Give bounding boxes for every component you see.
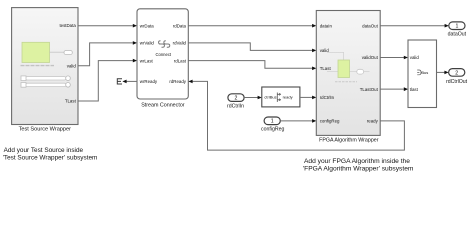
- svg-text:configReg: configReg: [320, 119, 340, 124]
- svg-text:2: 2: [235, 96, 238, 102]
- wire TLastOut to bus creator: [380, 87, 408, 91]
- svg-text:'FPGA Algorithm Wrapper' subsy: 'FPGA Algorithm Wrapper' subsystem: [303, 166, 414, 173]
- wire testData to wrData: [78, 24, 137, 28]
- FPGA thumbnail small oval: [357, 69, 364, 74]
- svg-text:valid: valid: [410, 55, 420, 60]
- terminator T1: [117, 79, 122, 84]
- thumbnail tiny caption text row: [21, 65, 55, 67]
- svg-text:TLast: TLast: [320, 66, 332, 71]
- FPGA thumbnail wires: [327, 52, 370, 71]
- svg-text:valid: valid: [320, 48, 330, 53]
- wire rdData to dataIn: [188, 24, 316, 28]
- wire valid to wrValid: [78, 41, 137, 66]
- Connect icon: [155, 41, 171, 57]
- thumbnail slider 2: [21, 83, 70, 88]
- svg-text:dataIn: dataIn: [320, 23, 333, 28]
- svg-text:'Test Source Wrapper' subsyste: 'Test Source Wrapper' subsystem: [3, 155, 98, 162]
- subsystem Test Source Wrapper: [12, 8, 78, 125]
- subsystem FPGA Algorithm Wrapper: [316, 11, 380, 136]
- wire rdCtrlIn to ctrlBus selector: [244, 96, 262, 100]
- bus creator: [408, 40, 437, 108]
- thumbnail green block inside Test Source Wrapper: [22, 42, 72, 62]
- svg-text:1: 1: [271, 119, 274, 125]
- svg-text:rdCtrlIn: rdCtrlIn: [227, 103, 244, 109]
- svg-text:rdData: rdData: [173, 23, 187, 28]
- svg-text:testData: testData: [59, 23, 76, 28]
- svg-text:Add your FPGA Algorithm inside: Add your FPGA Algorithm inside the: [304, 158, 410, 165]
- block Stream Connector: [137, 9, 188, 99]
- annotation left: [3, 147, 98, 162]
- svg-text:1: 1: [455, 24, 458, 30]
- inport 2 rdCtrlIn: [227, 94, 244, 110]
- svg-text:Add your Test Source inside: Add your Test Source inside: [4, 147, 84, 154]
- svg-text:validOut: validOut: [362, 55, 379, 60]
- svg-text:rdReady: rdReady: [169, 79, 186, 84]
- wire configReg to FPGA: [280, 119, 316, 123]
- outport 2 rdCtrlOut: [446, 69, 468, 85]
- thumbnail slider 1: [21, 76, 70, 81]
- svg-text:wrReady: wrReady: [140, 79, 158, 84]
- annotation right: [303, 158, 414, 173]
- svg-text:ready: ready: [283, 95, 293, 100]
- svg-text:TLastOut: TLastOut: [360, 87, 379, 92]
- wire validOut to bus creator: [380, 56, 408, 60]
- svg-text:Bus: Bus: [421, 70, 428, 75]
- wire wrReady to terminator: [122, 80, 137, 84]
- svg-text:ready: ready: [367, 119, 379, 124]
- svg-text:wrValid: wrValid: [140, 41, 155, 46]
- wire TLast to wrLast: [78, 59, 137, 101]
- wire dataOut to outport: [380, 24, 449, 28]
- wire ctrlBus selector to rdCtrlIn port: [300, 96, 316, 100]
- svg-text:rdCtrlOut: rdCtrlOut: [446, 79, 468, 85]
- FPGA thumbnail green block: [338, 60, 350, 78]
- svg-text:dataOut: dataOut: [362, 23, 378, 28]
- svg-text:rdLast: rdLast: [174, 58, 187, 63]
- bus selector ctrlBus/ready: [262, 87, 300, 107]
- svg-text:wrData: wrData: [140, 23, 154, 28]
- svg-text:ctrlBus: ctrlBus: [264, 95, 276, 100]
- inport 1 configReg: [261, 117, 284, 132]
- svg-text:Test Source Wrapper: Test Source Wrapper: [19, 127, 72, 133]
- wire rdLast to TLast: [188, 61, 316, 71]
- svg-text:FPGA Algorithm Wrapper: FPGA Algorithm Wrapper: [319, 138, 379, 144]
- wire ready feedback to rdReady: [188, 80, 404, 151]
- svg-text:TLast: TLast: [65, 99, 77, 104]
- svg-text:Stream Connector: Stream Connector: [141, 103, 185, 109]
- svg-text:dataOut: dataOut: [448, 32, 467, 38]
- svg-text:valid: valid: [67, 63, 77, 68]
- outport 1 dataOut: [448, 22, 467, 38]
- svg-text:rdValid: rdValid: [173, 41, 187, 46]
- svg-text:configReg: configReg: [261, 126, 284, 132]
- svg-text:2: 2: [455, 70, 458, 76]
- FPGA thumbnail caption dashes: [335, 81, 357, 83]
- svg-text:Connect: Connect: [155, 52, 171, 57]
- svg-text:rdCtrlIn: rdCtrlIn: [320, 95, 335, 100]
- svg-text:wrLast: wrLast: [140, 58, 154, 63]
- wire rdValid to valid: [188, 43, 316, 52]
- svg-text:tlast: tlast: [410, 87, 419, 92]
- wire bus creator to rdCtrlOut: [437, 71, 449, 75]
